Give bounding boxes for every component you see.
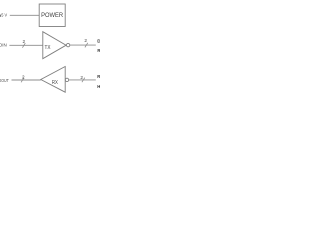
- svg-text:POWER: POWER: [41, 12, 64, 19]
- svg-text:HI: HI: [97, 84, 100, 89]
- svg-text:DIN: DIN: [0, 43, 7, 48]
- inversion bubble on TX output: [66, 43, 69, 46]
- bus width slash 2 (DIN): [22, 43, 25, 48]
- svg-text:RX: RX: [52, 80, 58, 86]
- wire 5V supply to POWER: [10, 14, 39, 16]
- svg-text:2: 2: [80, 75, 83, 80]
- bus width slash 2 (RX in): [82, 78, 85, 83]
- wire RX input from right edge: [69, 79, 96, 81]
- svg-text:2: 2: [84, 38, 87, 43]
- svg-text:RI: RI: [97, 74, 100, 79]
- svg-text:RO: RO: [97, 48, 100, 53]
- bus width slash 2 (DOUT): [21, 78, 24, 83]
- svg-text:TX: TX: [45, 45, 51, 51]
- inversion bubble on RX input: [65, 78, 68, 81]
- svg-text:2: 2: [22, 75, 25, 80]
- svg-text:2: 2: [22, 39, 25, 44]
- svg-text:5 V: 5 V: [1, 13, 7, 18]
- bus width slash 2 (TX out): [85, 43, 88, 48]
- wire TX output to right edge: [70, 44, 96, 46]
- svg-text:DO: DO: [97, 38, 100, 43]
- wire DIN to TX: [9, 44, 42, 46]
- wire RX output to DOUT: [12, 79, 41, 81]
- node +5V label: [0, 15, 1, 17]
- op-amp TX driver triangle: [43, 32, 66, 59]
- svg-text:DOUT: DOUT: [0, 78, 9, 83]
- op-amp RX receiver triangle: [41, 67, 65, 93]
- power supply block POWER: [39, 4, 65, 27]
